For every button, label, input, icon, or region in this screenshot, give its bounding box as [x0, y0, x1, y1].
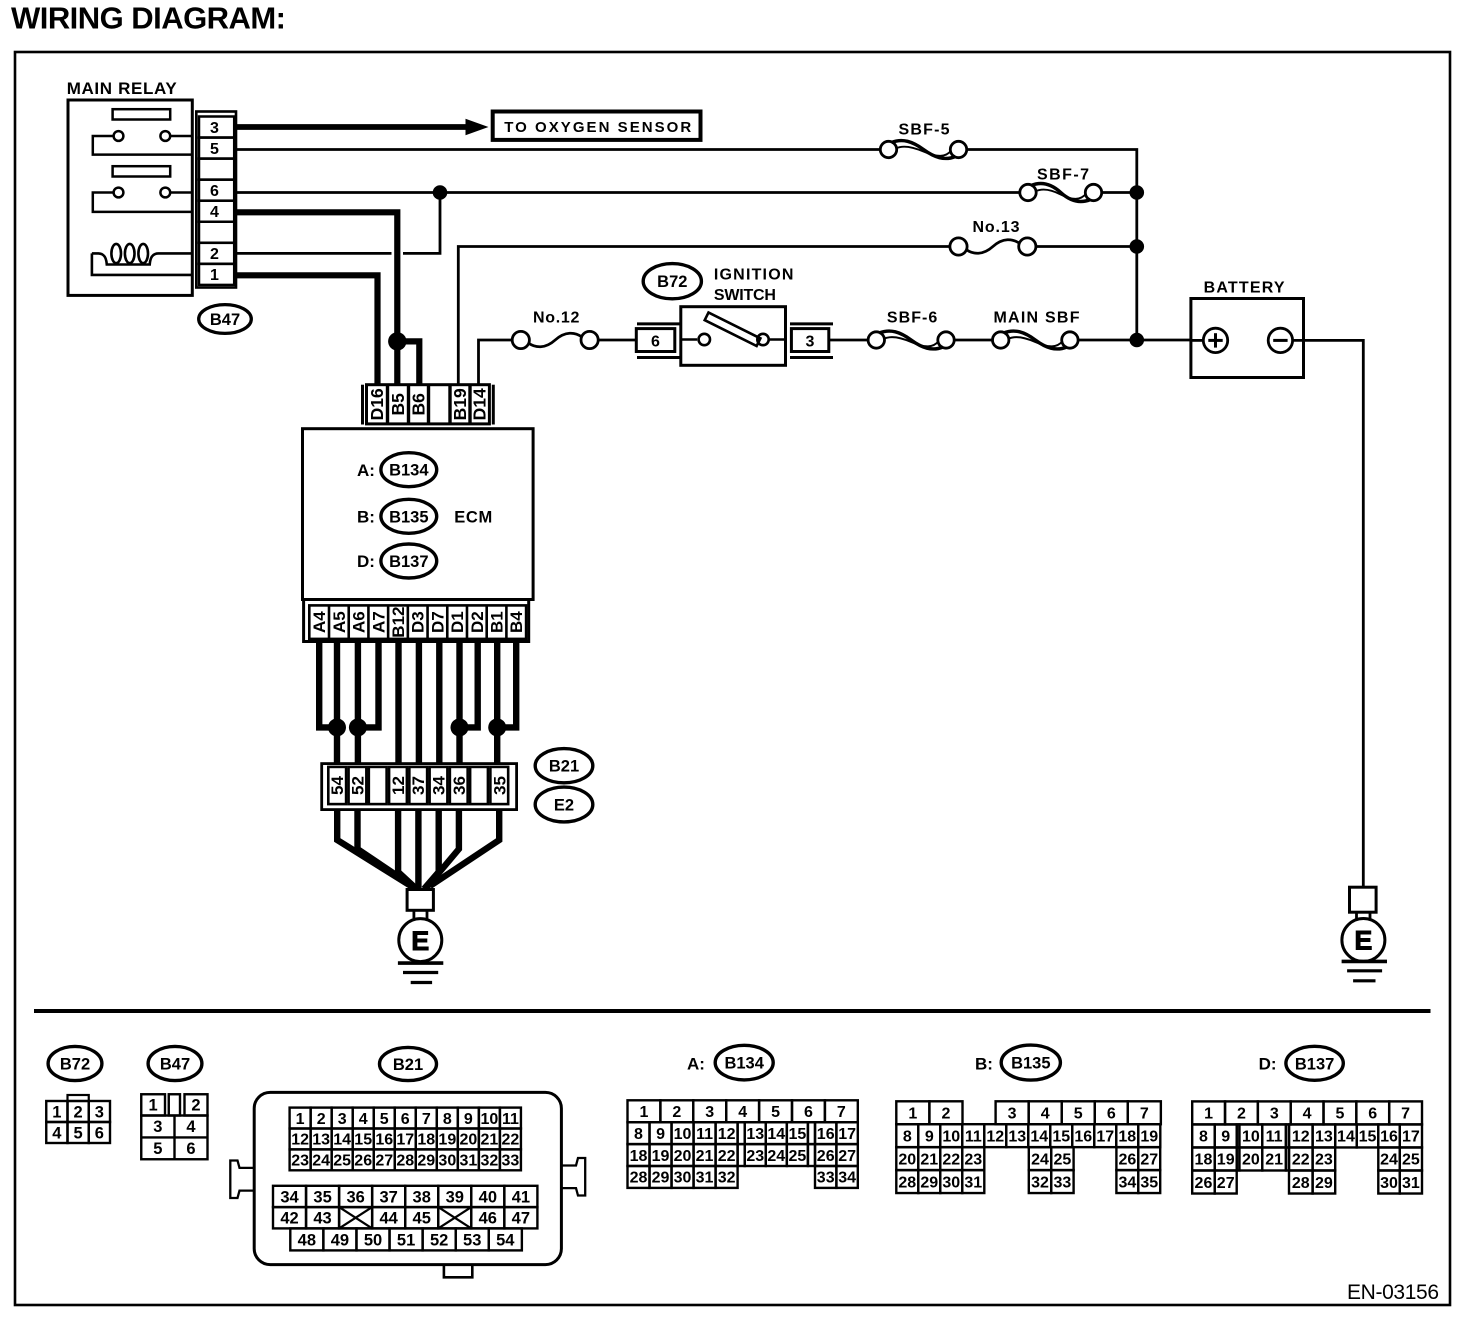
wire pin2 to junction at pin6 wire (with crossing break) — [236, 252, 392, 255]
svg-text:34: 34 — [838, 1170, 856, 1187]
svg-text:18: 18 — [417, 1132, 435, 1149]
svg-text:33: 33 — [817, 1170, 835, 1187]
svg-text:5: 5 — [1074, 1106, 1083, 1123]
svg-text:IGNITION: IGNITION — [714, 267, 794, 284]
svg-text:B47: B47 — [210, 311, 240, 329]
right ground lines — [1342, 960, 1387, 964]
svg-text:13: 13 — [746, 1126, 764, 1143]
svg-text:B134: B134 — [724, 1055, 764, 1073]
svg-text:1: 1 — [210, 267, 219, 284]
B21 oval label — [535, 749, 593, 783]
svg-text:No.13: No.13 — [973, 219, 1020, 236]
svg-text:29: 29 — [652, 1170, 670, 1187]
svg-text:19: 19 — [1140, 1128, 1158, 1145]
svg-text:45: 45 — [413, 1209, 431, 1227]
wire B4 — [497, 642, 516, 728]
wire D1 to pin 36 — [456, 642, 462, 764]
svg-text:24: 24 — [1380, 1152, 1398, 1169]
wire B1 to pin 35 — [494, 642, 500, 764]
svg-text:No.12: No.12 — [533, 310, 580, 327]
svg-text:D:: D: — [1259, 1055, 1277, 1074]
svg-text:30: 30 — [438, 1153, 456, 1170]
fuse MAIN SBF — [993, 332, 1009, 348]
svg-text:SBF-6: SBF-6 — [887, 310, 937, 327]
wire No.13 to bus — [1036, 245, 1137, 248]
svg-text:32: 32 — [480, 1153, 498, 1170]
svg-text:6: 6 — [804, 1104, 813, 1121]
wire MAIN SBF to battery — [1078, 339, 1191, 342]
svg-text:16: 16 — [1380, 1129, 1398, 1146]
svg-text:29: 29 — [920, 1174, 938, 1191]
wire pin3 to oxygen sensor (thick with arrow) — [236, 124, 466, 130]
svg-text:8: 8 — [903, 1128, 912, 1145]
svg-text:3: 3 — [338, 1111, 347, 1128]
svg-text:9: 9 — [1221, 1129, 1230, 1146]
A:B134 connector grid — [628, 1100, 661, 1122]
lower connector pin cells — [328, 767, 346, 804]
svg-text:6: 6 — [651, 333, 660, 350]
svg-text:12: 12 — [291, 1132, 309, 1149]
ignition switch pin 3 box — [791, 329, 828, 352]
main relay box — [68, 100, 192, 295]
svg-text:33: 33 — [502, 1153, 520, 1170]
svg-text:34: 34 — [430, 776, 449, 795]
svg-text:15: 15 — [788, 1126, 806, 1143]
svg-text:3: 3 — [806, 333, 815, 350]
B21 right tab — [561, 1158, 585, 1196]
svg-text:9: 9 — [656, 1126, 665, 1143]
right ground neck — [1355, 912, 1358, 918]
svg-text:D14: D14 — [470, 388, 490, 420]
junction dot bus/SBF-7 — [1130, 185, 1145, 200]
svg-text:27: 27 — [1140, 1151, 1158, 1168]
svg-text:8: 8 — [443, 1111, 452, 1128]
svg-text:5: 5 — [380, 1111, 389, 1128]
svg-text:1: 1 — [296, 1111, 305, 1128]
relay contact 1 bar — [113, 109, 171, 119]
svg-text:8: 8 — [634, 1126, 643, 1143]
B21 grid row 48-54 — [290, 1228, 323, 1250]
svg-text:4: 4 — [1303, 1106, 1312, 1123]
svg-text:25: 25 — [1402, 1152, 1420, 1169]
ground wire from pin 34 — [424, 810, 439, 889]
svg-text:13: 13 — [1008, 1128, 1026, 1145]
svg-text:37: 37 — [379, 1188, 397, 1206]
svg-text:35: 35 — [1140, 1174, 1158, 1191]
svg-text:3: 3 — [210, 120, 219, 137]
svg-text:34: 34 — [280, 1188, 299, 1206]
B:B135 connector grid — [896, 1101, 929, 1124]
ground wire from pin 36 — [427, 810, 459, 887]
svg-text:31: 31 — [1402, 1175, 1420, 1192]
B21 grid upper rows 1-33 — [290, 1108, 311, 1129]
junction dot D1/D2 — [451, 718, 469, 736]
svg-text:27: 27 — [838, 1148, 856, 1165]
ECM box — [303, 429, 534, 600]
svg-text:B137: B137 — [1295, 1055, 1334, 1073]
svg-text:22: 22 — [942, 1151, 960, 1168]
svg-text:D:: D: — [357, 552, 375, 571]
svg-text:43: 43 — [313, 1209, 331, 1227]
battery plus terminal — [1203, 328, 1227, 352]
svg-text:10: 10 — [1242, 1129, 1260, 1146]
svg-text:54: 54 — [496, 1231, 515, 1249]
svg-text:16: 16 — [1074, 1128, 1092, 1145]
junction dot pin6/pin2 wire — [433, 185, 448, 200]
ignition switch pin 6 box — [636, 329, 675, 352]
svg-text:30: 30 — [674, 1170, 692, 1187]
svg-text:44: 44 — [379, 1209, 398, 1227]
svg-text:BATTERY: BATTERY — [1204, 280, 1285, 297]
junction dot bus/No.13 — [1130, 239, 1145, 254]
junction dot B1/B4 — [488, 718, 506, 736]
svg-text:4: 4 — [52, 1124, 62, 1142]
svg-text:46: 46 — [479, 1209, 497, 1227]
wire pin4 thick, turns down to ECM B5 — [236, 212, 397, 341]
fuse SBF-5 — [880, 141, 896, 157]
svg-text:42: 42 — [280, 1209, 298, 1227]
svg-text:WIRING DIAGRAM:: WIRING DIAGRAM: — [11, 1, 286, 36]
svg-text:ECM: ECM — [454, 509, 492, 527]
svg-text:19: 19 — [652, 1148, 670, 1165]
svg-text:7: 7 — [1140, 1106, 1149, 1123]
svg-text:41: 41 — [512, 1188, 530, 1206]
svg-text:1: 1 — [639, 1104, 648, 1121]
svg-text:26: 26 — [1118, 1151, 1136, 1168]
left ground circle E — [399, 919, 442, 962]
bottom B21 connector outline — [254, 1092, 561, 1264]
svg-text:B135: B135 — [1011, 1055, 1050, 1073]
svg-text:21: 21 — [480, 1132, 498, 1149]
svg-text:4: 4 — [738, 1104, 747, 1121]
fuse No.13 — [950, 238, 967, 255]
svg-text:4: 4 — [210, 204, 219, 221]
svg-text:28: 28 — [898, 1174, 916, 1191]
wire pin1 thick, turns down to ECM D16 — [236, 275, 378, 384]
wire ECM B19 up and right to fuse No.13 — [458, 247, 950, 385]
svg-text:23: 23 — [291, 1153, 309, 1170]
divider line between diagram and connector views — [34, 1009, 1431, 1013]
svg-text:14: 14 — [1337, 1129, 1355, 1146]
relay contact 2 circles — [114, 188, 124, 198]
svg-text:6: 6 — [186, 1140, 195, 1158]
svg-text:36: 36 — [346, 1188, 364, 1206]
svg-text:2: 2 — [941, 1106, 950, 1123]
svg-text:1: 1 — [149, 1097, 158, 1115]
wire pin6 to SBF-7 — [236, 191, 1020, 194]
svg-text:29: 29 — [1315, 1175, 1333, 1192]
svg-text:26: 26 — [354, 1153, 372, 1170]
relay coil leads — [92, 253, 192, 264]
svg-text:32: 32 — [1031, 1174, 1049, 1191]
svg-text:B72: B72 — [60, 1056, 90, 1074]
svg-text:5: 5 — [74, 1124, 83, 1142]
wire D2 — [460, 642, 478, 728]
wire SBF-6 to MAIN SBF — [954, 339, 992, 342]
B21 bottom tab — [444, 1265, 472, 1278]
wire pin5 to SBF-5 and right bus — [236, 148, 880, 151]
svg-text:35: 35 — [313, 1188, 331, 1206]
svg-text:28: 28 — [1292, 1175, 1310, 1192]
svg-text:B4: B4 — [507, 611, 526, 633]
svg-text:25: 25 — [788, 1148, 806, 1165]
relay coil — [111, 244, 121, 263]
wire No.12 to ignition pin 6 — [598, 339, 636, 342]
B72 oval label — [643, 264, 701, 299]
svg-text:5: 5 — [153, 1140, 162, 1158]
svg-text:10: 10 — [942, 1128, 960, 1145]
svg-text:B135: B135 — [389, 508, 428, 526]
svg-text:26: 26 — [817, 1148, 835, 1165]
svg-text:B72: B72 — [657, 273, 687, 291]
svg-text:MAIN RELAY: MAIN RELAY — [67, 79, 178, 98]
wire battery minus to right ground — [1293, 340, 1364, 887]
svg-text:9: 9 — [464, 1111, 473, 1128]
left ground neck — [412, 910, 415, 919]
svg-text:27: 27 — [1217, 1175, 1235, 1192]
D:B137 connector grid — [1192, 1101, 1225, 1124]
svg-text:11: 11 — [502, 1111, 519, 1128]
ground wire from pin 54 — [337, 810, 411, 886]
svg-text:51: 51 — [397, 1231, 415, 1249]
svg-text:D7: D7 — [428, 611, 447, 633]
svg-text:30: 30 — [1380, 1175, 1398, 1192]
svg-text:17: 17 — [396, 1132, 414, 1149]
bottom B47 connector grid — [141, 1094, 165, 1115]
svg-text:SBF-7: SBF-7 — [1037, 167, 1089, 184]
svg-text:A:: A: — [687, 1055, 705, 1074]
svg-text:A:: A: — [357, 461, 375, 480]
svg-text:4: 4 — [359, 1111, 368, 1128]
ground wire from pin 37 — [415, 810, 421, 891]
junction dot A6/A7 — [349, 718, 367, 736]
svg-text:SWITCH: SWITCH — [714, 287, 776, 304]
ground wire from pin 35 — [430, 810, 499, 886]
svg-text:17: 17 — [1402, 1129, 1420, 1146]
svg-text:36: 36 — [450, 776, 469, 795]
svg-text:22: 22 — [502, 1132, 520, 1149]
svg-text:6: 6 — [1107, 1106, 1116, 1123]
svg-text:20: 20 — [674, 1148, 692, 1165]
svg-text:17: 17 — [1096, 1128, 1114, 1145]
B21 grid lower rows 34-47 — [273, 1186, 306, 1207]
svg-text:2: 2 — [74, 1103, 83, 1121]
wire ECM D14 up and right to fuse No.12 — [479, 340, 513, 385]
bottom B72 oval — [48, 1046, 102, 1080]
svg-text:12: 12 — [986, 1128, 1004, 1145]
svg-text:33: 33 — [1054, 1174, 1072, 1191]
svg-text:A4: A4 — [310, 611, 329, 633]
E2 oval label — [535, 787, 593, 822]
svg-text:6: 6 — [401, 1111, 410, 1128]
svg-text:49: 49 — [331, 1231, 349, 1249]
svg-text:24: 24 — [312, 1153, 330, 1170]
svg-text:7: 7 — [1401, 1106, 1410, 1123]
svg-text:37: 37 — [409, 776, 428, 795]
svg-text:12: 12 — [718, 1126, 736, 1143]
svg-text:SBF-5: SBF-5 — [899, 122, 950, 139]
wire A4 — [319, 642, 337, 728]
svg-text:23: 23 — [1315, 1152, 1333, 1169]
B21 left tab — [230, 1161, 254, 1199]
left ground lines — [398, 961, 443, 965]
svg-text:4: 4 — [186, 1118, 196, 1136]
svg-text:3: 3 — [1008, 1106, 1017, 1123]
svg-text:2: 2 — [210, 246, 219, 263]
wire A7 — [358, 642, 379, 728]
svg-text:18: 18 — [1195, 1152, 1213, 1169]
svg-text:5: 5 — [771, 1104, 780, 1121]
svg-text:3: 3 — [95, 1103, 104, 1121]
svg-text:10: 10 — [480, 1111, 498, 1128]
svg-text:54: 54 — [328, 776, 347, 795]
svg-text:D2: D2 — [468, 611, 487, 633]
wire D3 to pin 37 — [416, 642, 422, 764]
junction dot pin4/B5/B6 — [388, 332, 406, 350]
svg-text:2: 2 — [317, 1111, 326, 1128]
svg-text:MAIN SBF: MAIN SBF — [994, 310, 1080, 327]
lower connector shell — [322, 764, 517, 810]
svg-text:D3: D3 — [409, 611, 428, 633]
svg-text:31: 31 — [964, 1174, 982, 1191]
svg-text:7: 7 — [422, 1111, 431, 1128]
svg-text:2: 2 — [191, 1097, 200, 1115]
svg-text:9: 9 — [925, 1128, 934, 1145]
svg-text:25: 25 — [333, 1153, 351, 1170]
svg-text:31: 31 — [459, 1153, 477, 1170]
connector B47 back plate — [196, 112, 236, 288]
wire battery plus — [1191, 339, 1203, 342]
svg-text:6: 6 — [1368, 1106, 1377, 1123]
svg-text:B137: B137 — [389, 553, 428, 571]
svg-text:B47: B47 — [160, 1056, 190, 1074]
right ground connector box — [1350, 887, 1377, 912]
svg-text:52: 52 — [348, 776, 367, 795]
svg-text:3: 3 — [153, 1118, 162, 1136]
svg-text:48: 48 — [298, 1231, 316, 1249]
wire pin3 to SBF-6 — [829, 339, 868, 342]
svg-text:28: 28 — [396, 1153, 414, 1170]
svg-text:50: 50 — [364, 1231, 382, 1249]
svg-text:B21: B21 — [549, 758, 579, 776]
svg-text:20: 20 — [459, 1132, 477, 1149]
svg-text:15: 15 — [1052, 1128, 1070, 1145]
ground wire from pin 52 — [358, 810, 415, 887]
wire dot down to B5 — [394, 341, 400, 384]
svg-text:E: E — [411, 926, 429, 956]
connector B47 oval label — [199, 305, 252, 334]
svg-text:24: 24 — [1031, 1151, 1049, 1168]
svg-text:13: 13 — [312, 1132, 330, 1149]
svg-text:TO OXYGEN SENSOR: TO OXYGEN SENSOR — [504, 119, 691, 136]
svg-text:20: 20 — [898, 1151, 916, 1168]
svg-text:B1: B1 — [488, 611, 507, 633]
svg-text:13: 13 — [1315, 1129, 1333, 1146]
ignition switch box — [681, 307, 786, 366]
svg-text:1: 1 — [52, 1103, 61, 1121]
svg-text:12: 12 — [1292, 1129, 1310, 1146]
svg-text:21: 21 — [920, 1151, 938, 1168]
svg-text:3: 3 — [1270, 1106, 1279, 1123]
wire B12 to pin 12 — [395, 642, 401, 764]
relay contact 1 wires — [93, 136, 192, 155]
svg-text:21: 21 — [696, 1148, 714, 1165]
ECM top connector cells — [367, 385, 490, 424]
svg-text:2: 2 — [1237, 1106, 1246, 1123]
right bus vertical wire — [1135, 193, 1138, 341]
svg-text:B134: B134 — [389, 462, 429, 480]
svg-text:D16: D16 — [367, 388, 387, 420]
svg-text:15: 15 — [354, 1132, 372, 1149]
svg-text:40: 40 — [479, 1188, 497, 1206]
bottom B21 oval — [380, 1047, 437, 1080]
svg-text:23: 23 — [964, 1151, 982, 1168]
svg-text:B6: B6 — [409, 393, 429, 416]
fuse No.12 — [512, 331, 529, 348]
svg-text:10: 10 — [674, 1126, 692, 1143]
svg-text:22: 22 — [1292, 1152, 1310, 1169]
ignition switch lever — [705, 313, 761, 346]
svg-text:3: 3 — [705, 1104, 714, 1121]
svg-text:32: 32 — [718, 1170, 736, 1187]
svg-text:11: 11 — [1266, 1129, 1283, 1146]
svg-text:22: 22 — [718, 1148, 736, 1165]
svg-text:5: 5 — [1335, 1106, 1344, 1123]
svg-text:27: 27 — [375, 1153, 393, 1170]
svg-text:B19: B19 — [450, 388, 470, 420]
svg-text:30: 30 — [942, 1174, 960, 1191]
svg-text:8: 8 — [1199, 1129, 1208, 1146]
svg-text:17: 17 — [838, 1126, 856, 1143]
relay contact 2 wires — [93, 193, 192, 212]
to oxygen sensor box — [493, 112, 701, 140]
wire D7 to pin 34 — [436, 642, 442, 764]
svg-text:4: 4 — [1041, 1106, 1050, 1123]
connector B47 pin cells — [199, 117, 234, 138]
relay contact 2 bar — [113, 166, 171, 176]
svg-text:B5: B5 — [388, 393, 408, 416]
svg-text:23: 23 — [746, 1148, 764, 1165]
svg-text:12: 12 — [389, 776, 408, 795]
svg-text:B21: B21 — [393, 1056, 423, 1074]
relay contact 1 circles — [114, 131, 124, 141]
svg-text:16: 16 — [375, 1132, 393, 1149]
ECM bottom connector shell — [304, 600, 529, 642]
svg-text:14: 14 — [1030, 1128, 1048, 1145]
battery minus terminal — [1268, 328, 1292, 352]
svg-text:E2: E2 — [554, 797, 574, 815]
svg-text:18: 18 — [630, 1148, 648, 1165]
svg-text:5: 5 — [210, 141, 219, 158]
svg-text:29: 29 — [417, 1153, 435, 1170]
svg-text:2: 2 — [672, 1104, 681, 1121]
svg-text:18: 18 — [1118, 1128, 1136, 1145]
svg-text:1: 1 — [908, 1106, 917, 1123]
ignition switch contacts — [681, 338, 697, 341]
wire A6 to pin 52 — [355, 642, 361, 764]
svg-text:6: 6 — [95, 1124, 104, 1142]
svg-text:B:: B: — [357, 508, 375, 527]
svg-text:34: 34 — [1118, 1174, 1136, 1191]
bottom B47 oval — [148, 1046, 202, 1080]
svg-text:14: 14 — [767, 1126, 785, 1143]
svg-text:47: 47 — [512, 1209, 530, 1227]
junction dot A4/A5 — [328, 718, 346, 736]
svg-text:21: 21 — [1265, 1152, 1283, 1169]
relay coil lower loop to pin 1 — [92, 253, 192, 275]
svg-text:B:: B: — [975, 1055, 993, 1074]
ECM bottom connector cells — [309, 605, 526, 639]
